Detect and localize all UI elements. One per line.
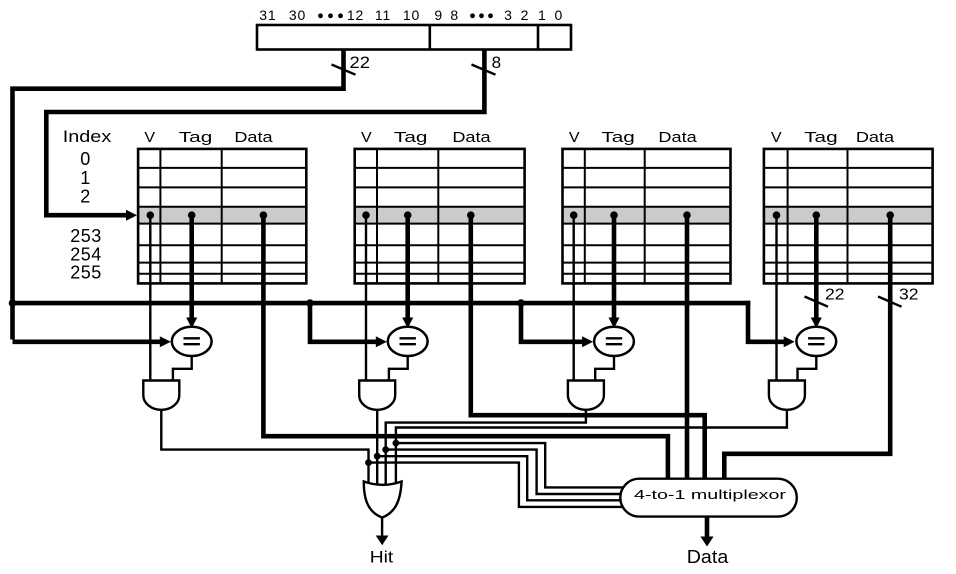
svg-text:253: 253 (70, 226, 102, 246)
svg-text:1: 1 (80, 168, 91, 188)
bank 2 V wire (365, 215, 367, 382)
comparator 3 output zigzag (595, 355, 614, 382)
bank 3 Data junction dot (683, 211, 691, 219)
wire AND1 branch to mux select 1 (369, 463, 641, 507)
AND gate 3 output wire to OR input 3 (386, 408, 586, 486)
bit number labels 31..0 (259, 7, 563, 23)
bank 4 table grid (764, 149, 933, 284)
bank 3 headers V Tag Data (569, 129, 698, 146)
comparator 4 (796, 327, 836, 356)
bank 3 V wire (573, 215, 575, 382)
svg-text:V: V (771, 129, 782, 146)
wire tag arrow into comparator 1 (13, 339, 163, 344)
wire index field drop 8 (46, 50, 484, 216)
svg-text:Tag: Tag (804, 129, 838, 146)
bank 1 V junction dot (147, 211, 155, 219)
bank 2 headers V Tag Data (361, 129, 491, 146)
bank 4 Data junction dot (886, 211, 894, 219)
bank 3 Data wire to mux (685, 215, 690, 480)
AND gate 4 output wire to OR input 4 (396, 408, 787, 486)
wire AND4 branch to mux select 4 (396, 443, 640, 487)
bank 3 V junction dot (570, 211, 578, 219)
comparator 1 output zigzag (173, 355, 192, 382)
bank 2 highlighted row (355, 207, 525, 224)
svg-text:Data: Data (856, 129, 895, 146)
OR output arrowhead (376, 536, 389, 546)
svg-text:Hit: Hit (370, 548, 394, 567)
wire AND3 branch to mux select 3 (386, 450, 640, 494)
svg-text:V: V (361, 129, 372, 146)
junction on tag bus for comparator 3 (517, 299, 525, 307)
bank 1 highlighted row (138, 207, 306, 224)
bank 2 table grid (355, 149, 525, 284)
bank 2 Tag junction dot (404, 211, 412, 219)
svg-text:10: 10 (403, 7, 420, 23)
bank 4 V junction dot (773, 211, 781, 219)
bank 4 Tag junction dot (813, 211, 821, 219)
junction dot AND4 branch (393, 440, 400, 447)
svg-text:2: 2 (80, 186, 91, 206)
index arrowhead (126, 210, 137, 221)
svg-text:Data: Data (687, 547, 730, 567)
comparator 3 (594, 327, 634, 356)
svg-text:9: 9 (434, 7, 443, 23)
bank 1 table grid (138, 149, 306, 284)
svg-text:8: 8 (492, 53, 502, 72)
AND gate 4 (769, 381, 805, 410)
svg-text:V: V (144, 129, 155, 146)
svg-text:31: 31 (259, 7, 276, 23)
svg-text:22: 22 (350, 53, 371, 72)
AND gate 3 (568, 381, 604, 410)
ellipsis dots in bit labels (318, 13, 493, 18)
bank 3 highlighted row (563, 207, 731, 224)
AND gate 2 output wire to OR input 2 (376, 408, 378, 486)
slash 32 on bank 4 data wire (878, 297, 902, 307)
slash 22 on bank 4 tag wire (805, 297, 829, 307)
svg-text:0: 0 (555, 7, 564, 23)
svg-text:2: 2 (521, 7, 530, 23)
svg-text:Data: Data (658, 129, 697, 146)
bank 1 headers V Tag Data (144, 129, 273, 146)
AND gate 2 (359, 381, 395, 410)
bank 1 V wire (149, 215, 151, 382)
bank 2 Data wire to mux (471, 215, 705, 480)
svg-text:1: 1 (538, 7, 547, 23)
svg-text:12: 12 (347, 7, 364, 23)
wire tag field drop 22 (13, 50, 344, 340)
junction dot AND1 branch (365, 459, 372, 466)
bank 4 Tag wire with arrow to comparator 4 (814, 215, 819, 319)
AND gate 1 output wire to OR input 1 (161, 408, 368, 486)
svg-text:0: 0 (80, 149, 91, 169)
tag bus horizontal (13, 301, 751, 306)
bank 3 Tag wire with arrow to comparator 3 (612, 215, 617, 319)
svg-text:Index: Index (63, 128, 112, 146)
svg-text:4-to-1 multiplexor: 4-to-1 multiplexor (634, 487, 787, 502)
svg-text:Tag: Tag (179, 129, 213, 146)
bank 4 headers V Tag Data (771, 129, 895, 146)
svg-text:32: 32 (899, 286, 919, 303)
svg-text:3: 3 (504, 7, 513, 23)
svg-text:11: 11 (375, 7, 391, 23)
junction dot AND3 branch (382, 446, 389, 453)
svg-text:Data: Data (234, 129, 273, 146)
mux output wire (705, 517, 710, 539)
bank 1 Tag wire with arrow to comparator 1 (189, 215, 194, 319)
index row labels (70, 149, 102, 283)
svg-text:Data: Data (452, 129, 491, 146)
mux output arrowhead (700, 537, 713, 547)
bank 1 Tag junction dot (188, 211, 196, 219)
junction on tag bus at left (9, 299, 17, 307)
bank 2 Tag wire with arrow to comparator 2 (405, 215, 410, 319)
svg-text:30: 30 (289, 7, 306, 23)
svg-text:254: 254 (70, 244, 102, 264)
bank 3 table grid (563, 149, 731, 284)
comparator 4 output zigzag (798, 355, 817, 382)
svg-text:22: 22 (825, 286, 845, 303)
OR gate (364, 482, 402, 518)
wire bus drop to comparator 2 (310, 303, 381, 342)
svg-text:Tag: Tag (601, 129, 635, 146)
bank 4 highlighted row (764, 207, 933, 224)
comparator 2 (388, 327, 428, 356)
comparator 2 output zigzag (389, 355, 408, 382)
junction dot AND2 branch (374, 453, 381, 460)
comparator 1 (172, 327, 212, 356)
bank 1 Data junction dot (260, 211, 268, 219)
slash 22 (332, 65, 356, 75)
svg-text:V: V (569, 129, 580, 146)
bank 2 V junction dot (362, 211, 370, 219)
bank 3 Tag junction dot (610, 211, 618, 219)
address register (257, 25, 571, 50)
bank 1 Data wire to mux (263, 215, 668, 480)
4-to-1 multiplexor body (620, 479, 797, 517)
wire AND2 branch to mux select 2 (377, 456, 640, 500)
bank 4 V wire (775, 215, 777, 382)
wire bus drop to comparator 4 (748, 301, 788, 342)
svg-text:8: 8 (450, 7, 459, 23)
bank 4 Data wire to mux (724, 215, 890, 480)
svg-text:255: 255 (70, 263, 102, 283)
slash 8 (472, 65, 496, 75)
OR output wire (381, 518, 383, 538)
svg-text:Tag: Tag (394, 129, 428, 146)
AND gate 1 (143, 381, 179, 410)
wire bus drop to comparator 3 (521, 303, 587, 342)
bank 2 Data junction dot (467, 211, 475, 219)
junction on tag bus for comparator 2 (306, 299, 314, 307)
